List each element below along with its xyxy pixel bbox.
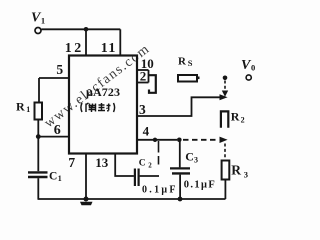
svg-text:C: C	[139, 158, 146, 168]
svg-text:1: 1	[26, 105, 30, 114]
svg-text:4: 4	[143, 123, 150, 138]
svg-text:R: R	[231, 163, 241, 178]
svg-text:7: 7	[68, 155, 75, 170]
svg-text:R: R	[231, 109, 240, 123]
svg-text:μA723: μA723	[86, 85, 120, 99]
svg-text:R: R	[178, 56, 187, 68]
svg-text:12: 12	[65, 41, 84, 56]
svg-text:C: C	[49, 170, 57, 182]
svg-text:13: 13	[95, 155, 109, 170]
svg-text:2: 2	[241, 115, 245, 124]
svg-text:0: 0	[251, 62, 255, 72]
svg-text:3: 3	[244, 170, 248, 180]
svg-text:2: 2	[148, 162, 152, 170]
svg-text:5: 5	[56, 62, 63, 77]
svg-text:3: 3	[139, 102, 146, 117]
svg-text:S: S	[188, 58, 193, 68]
svg-text:C: C	[185, 149, 194, 163]
svg-text:6: 6	[54, 123, 61, 138]
svg-text:0.1μF: 0.1μF	[184, 179, 215, 190]
svg-text:3: 3	[194, 155, 198, 164]
svg-text:1: 1	[58, 174, 62, 183]
svg-text:1: 1	[41, 15, 45, 25]
svg-text:R: R	[16, 99, 25, 113]
svg-text:2: 2	[140, 68, 147, 83]
svg-text:11: 11	[101, 41, 117, 56]
